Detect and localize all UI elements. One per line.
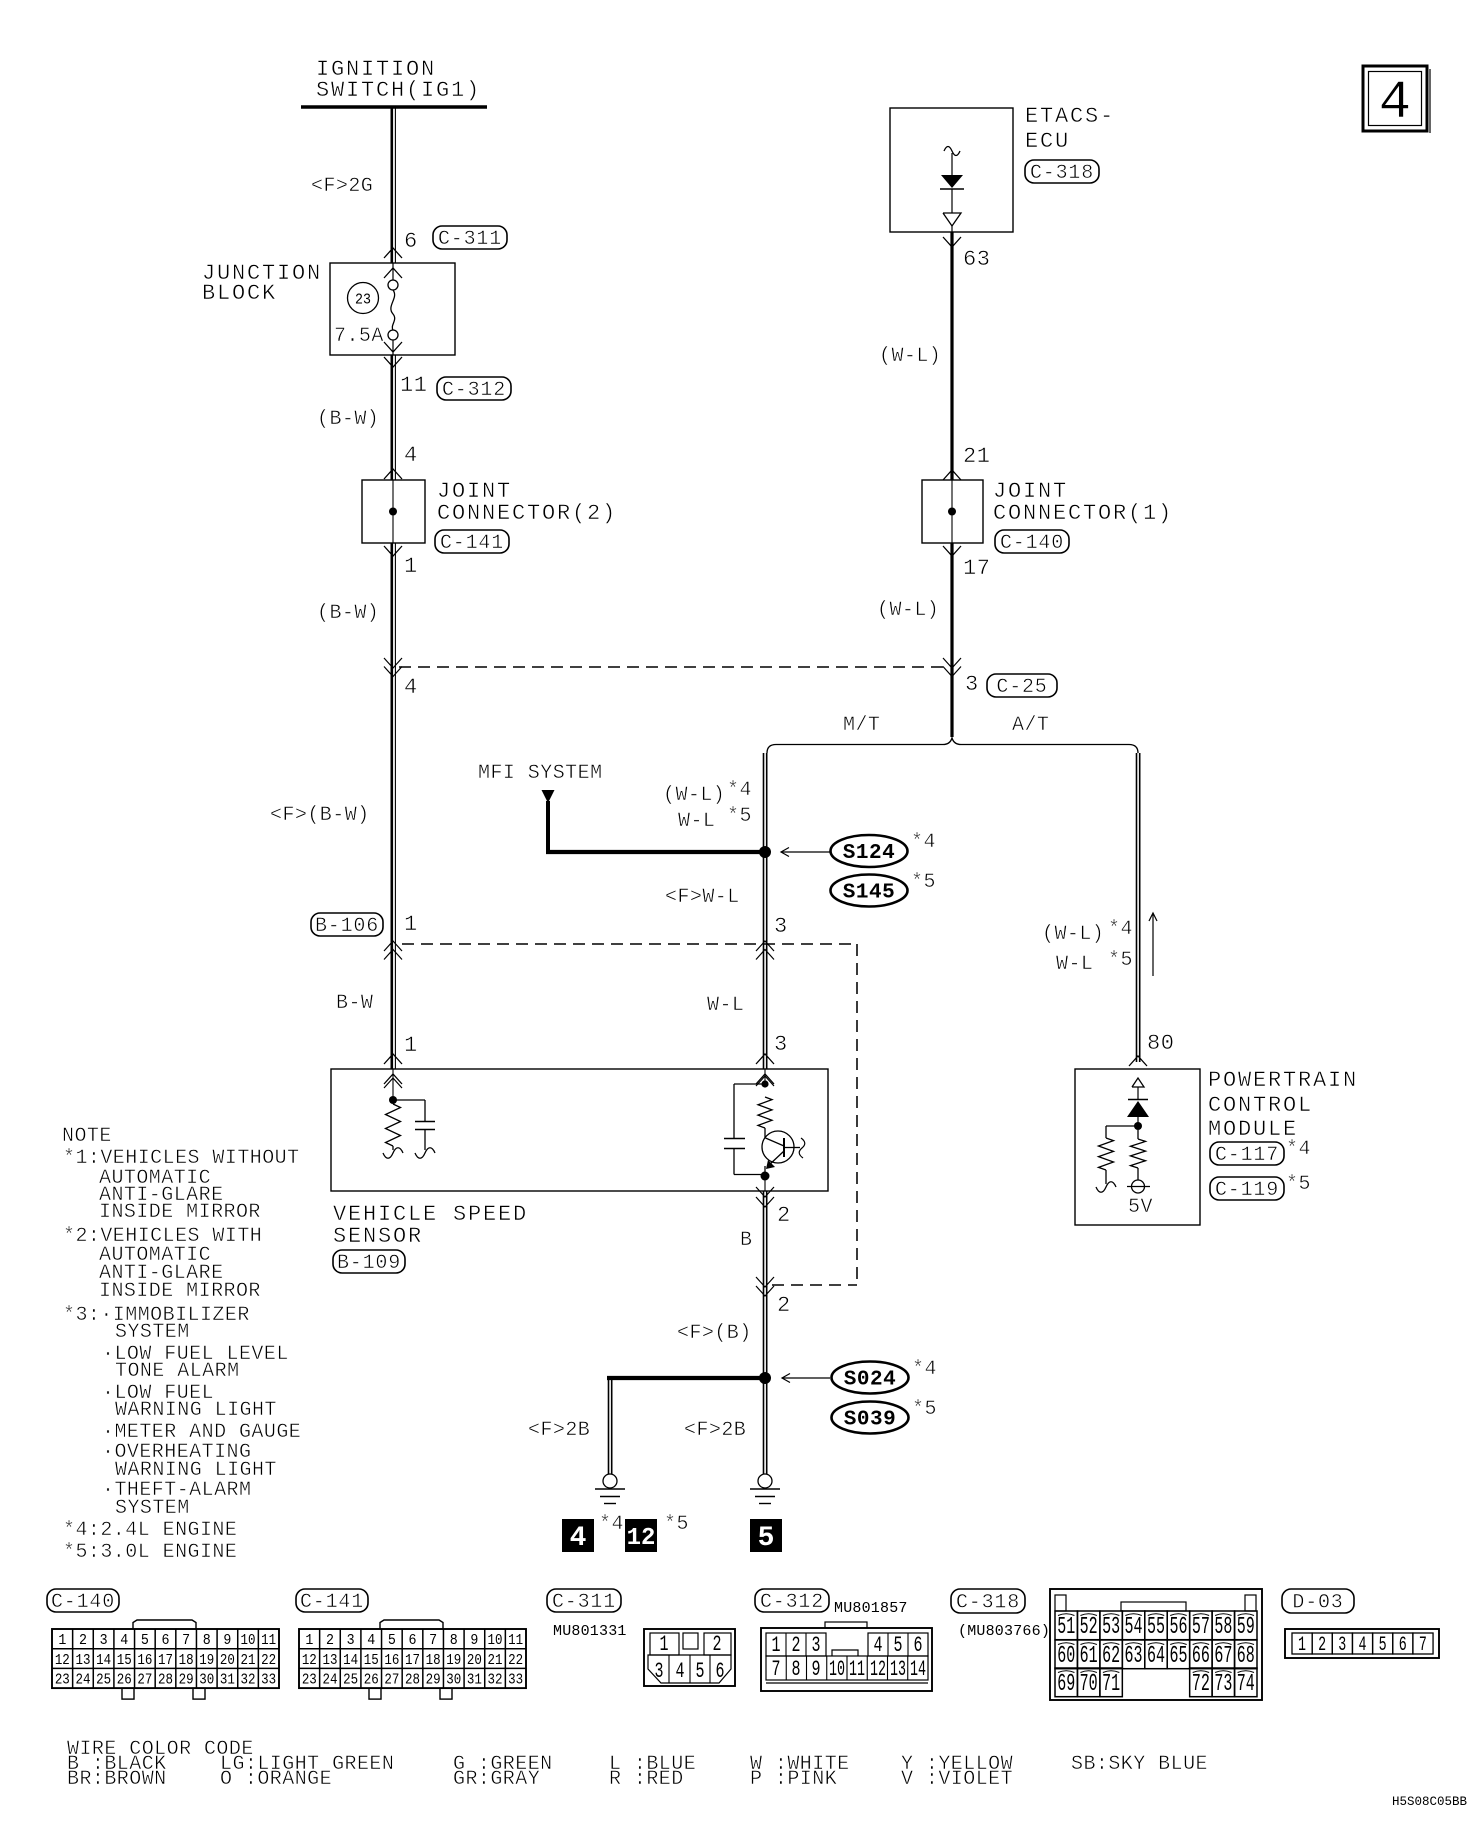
svg-text:(W-L): (W-L) xyxy=(877,599,939,622)
svg-text:3: 3 xyxy=(347,1632,355,1649)
svg-text:B-W: B-W xyxy=(336,992,373,1015)
svg-text:1: 1 xyxy=(660,1632,669,1657)
svg-text:6: 6 xyxy=(409,1632,417,1649)
svg-text:27: 27 xyxy=(384,1672,399,1689)
svg-text:4: 4 xyxy=(367,1632,375,1649)
svg-text:P :PINK: P :PINK xyxy=(750,1768,837,1791)
svg-text:12: 12 xyxy=(302,1652,317,1669)
svg-text:2: 2 xyxy=(326,1632,334,1649)
svg-text:9: 9 xyxy=(223,1632,231,1649)
svg-text:3: 3 xyxy=(100,1632,108,1649)
svg-text:67: 67 xyxy=(1214,1643,1232,1670)
svg-text:MODULE: MODULE xyxy=(1208,1117,1298,1142)
svg-text:56: 56 xyxy=(1169,1614,1187,1641)
svg-text:19: 19 xyxy=(446,1652,461,1669)
svg-text:6: 6 xyxy=(914,1633,923,1658)
svg-text:5: 5 xyxy=(758,1523,775,1554)
svg-text:32: 32 xyxy=(241,1672,256,1689)
svg-text:*4:2.4L ENGINE: *4:2.4L ENGINE xyxy=(63,1519,237,1542)
svg-text:INSIDE MIRROR: INSIDE MIRROR xyxy=(99,1201,261,1224)
svg-text:2: 2 xyxy=(713,1632,722,1657)
svg-text:*4: *4 xyxy=(599,1513,624,1536)
svg-text:21: 21 xyxy=(963,444,991,469)
svg-text:NOTE: NOTE xyxy=(62,1125,112,1148)
svg-text:1: 1 xyxy=(1298,1634,1306,1657)
svg-text:2: 2 xyxy=(1318,1634,1326,1657)
svg-text:18: 18 xyxy=(179,1652,194,1669)
svg-text:11: 11 xyxy=(261,1632,276,1649)
svg-text:64: 64 xyxy=(1147,1643,1165,1670)
svg-text:4: 4 xyxy=(404,675,418,700)
svg-text:1: 1 xyxy=(404,554,418,579)
svg-text:12: 12 xyxy=(870,1657,886,1682)
svg-text:6: 6 xyxy=(716,1659,725,1684)
svg-text:57: 57 xyxy=(1192,1614,1210,1641)
svg-text:BR:BROWN: BR:BROWN xyxy=(67,1768,167,1791)
svg-text:31: 31 xyxy=(220,1672,235,1689)
svg-text:C-318: C-318 xyxy=(956,1592,1020,1615)
svg-text:MU801331: MU801331 xyxy=(553,1623,627,1640)
svg-text:58: 58 xyxy=(1214,1614,1232,1641)
svg-text:3: 3 xyxy=(812,1633,821,1658)
svg-text:C-140: C-140 xyxy=(51,1591,115,1614)
svg-text:MU801857: MU801857 xyxy=(834,1600,908,1617)
svg-text:10: 10 xyxy=(488,1632,503,1649)
svg-text:*5:3.0L ENGINE: *5:3.0L ENGINE xyxy=(63,1541,237,1564)
svg-text:5: 5 xyxy=(696,1659,705,1684)
svg-text:(MU803766): (MU803766) xyxy=(958,1623,1050,1640)
svg-text:(W-L): (W-L) xyxy=(663,784,725,807)
svg-text:SENSOR: SENSOR xyxy=(333,1224,423,1249)
svg-text:C-318: C-318 xyxy=(1030,162,1094,185)
svg-text:33: 33 xyxy=(508,1672,523,1689)
svg-text:16: 16 xyxy=(137,1652,152,1669)
svg-text:25: 25 xyxy=(96,1672,111,1689)
svg-text:4: 4 xyxy=(874,1633,883,1658)
svg-text:4: 4 xyxy=(676,1659,685,1684)
svg-text:C-311: C-311 xyxy=(552,1591,616,1614)
svg-text:29: 29 xyxy=(426,1672,441,1689)
svg-text:C-141: C-141 xyxy=(440,532,504,555)
svg-text:(B-W): (B-W) xyxy=(317,602,379,625)
svg-text:21: 21 xyxy=(488,1652,503,1669)
svg-text:18: 18 xyxy=(426,1652,441,1669)
svg-text:10: 10 xyxy=(241,1632,256,1649)
svg-text:16: 16 xyxy=(384,1652,399,1669)
svg-text:C-311: C-311 xyxy=(438,228,502,251)
svg-text:*4: *4 xyxy=(912,1358,937,1381)
svg-text:22: 22 xyxy=(508,1652,523,1669)
svg-text:71: 71 xyxy=(1102,1671,1120,1698)
svg-text:O :ORANGE: O :ORANGE xyxy=(220,1768,332,1791)
svg-text:23: 23 xyxy=(302,1672,317,1689)
svg-text:52: 52 xyxy=(1080,1614,1098,1641)
svg-text:9: 9 xyxy=(470,1632,478,1649)
svg-text:66: 66 xyxy=(1192,1643,1210,1670)
svg-text:MFI SYSTEM: MFI SYSTEM xyxy=(478,762,603,785)
svg-text:15: 15 xyxy=(117,1652,132,1669)
svg-text:2: 2 xyxy=(777,1293,791,1318)
svg-text:3: 3 xyxy=(965,672,979,697)
svg-text:<F>W-L: <F>W-L xyxy=(665,886,740,909)
svg-text:14: 14 xyxy=(96,1652,111,1669)
svg-text:30: 30 xyxy=(446,1672,461,1689)
svg-text:CONNECTOR(2): CONNECTOR(2) xyxy=(437,501,617,526)
svg-text:61: 61 xyxy=(1080,1643,1098,1670)
svg-text:(B-W): (B-W) xyxy=(317,408,379,431)
svg-text:*5: *5 xyxy=(1108,949,1133,972)
svg-text:19: 19 xyxy=(199,1652,214,1669)
svg-text:27: 27 xyxy=(137,1672,152,1689)
svg-text:28: 28 xyxy=(405,1672,420,1689)
svg-text:6: 6 xyxy=(162,1632,170,1649)
svg-text:23: 23 xyxy=(355,292,371,309)
svg-text:H5S08C05BB: H5S08C05BB xyxy=(1392,1795,1468,1809)
svg-text:*5: *5 xyxy=(1286,1173,1311,1196)
svg-text:54: 54 xyxy=(1125,1614,1143,1641)
svg-text:B: B xyxy=(740,1229,752,1252)
svg-text:V :VIOLET: V :VIOLET xyxy=(901,1768,1013,1791)
svg-text:9: 9 xyxy=(812,1657,821,1682)
svg-text:6: 6 xyxy=(404,229,418,254)
svg-text:C-25: C-25 xyxy=(996,676,1047,699)
svg-text:TONE ALARM: TONE ALARM xyxy=(115,1360,240,1383)
svg-text:A/T: A/T xyxy=(1012,714,1049,737)
svg-text:POWERTRAIN: POWERTRAIN xyxy=(1208,1068,1358,1093)
svg-text:7: 7 xyxy=(1419,1634,1427,1657)
svg-text:4: 4 xyxy=(404,443,418,468)
svg-text:70: 70 xyxy=(1080,1671,1098,1698)
svg-text:B-106: B-106 xyxy=(315,915,379,938)
svg-text:21: 21 xyxy=(241,1652,256,1669)
svg-text:59: 59 xyxy=(1237,1614,1255,1641)
svg-text:53: 53 xyxy=(1102,1614,1120,1641)
svg-text:8: 8 xyxy=(450,1632,458,1649)
svg-text:24: 24 xyxy=(322,1672,337,1689)
svg-text:72: 72 xyxy=(1192,1671,1210,1698)
svg-text:31: 31 xyxy=(467,1672,482,1689)
svg-text:1: 1 xyxy=(772,1633,781,1658)
svg-text:5: 5 xyxy=(1379,1634,1387,1657)
svg-text:SB:SKY BLUE: SB:SKY BLUE xyxy=(1071,1753,1208,1776)
svg-text:4: 4 xyxy=(1358,1634,1366,1657)
svg-text:C-312: C-312 xyxy=(760,1591,824,1614)
svg-text:CONNECTOR(1): CONNECTOR(1) xyxy=(993,501,1173,526)
svg-text:7: 7 xyxy=(182,1632,190,1649)
svg-text:29: 29 xyxy=(179,1672,194,1689)
svg-text:3: 3 xyxy=(774,914,788,939)
svg-text:74: 74 xyxy=(1237,1671,1255,1698)
svg-text:26: 26 xyxy=(117,1672,132,1689)
svg-text:20: 20 xyxy=(467,1652,482,1669)
svg-text:62: 62 xyxy=(1102,1643,1120,1670)
svg-text:13: 13 xyxy=(75,1652,90,1669)
svg-text:5: 5 xyxy=(388,1632,396,1649)
svg-text:*4: *4 xyxy=(1286,1138,1311,1161)
svg-text:2: 2 xyxy=(777,1203,791,1228)
svg-text:17: 17 xyxy=(158,1652,173,1669)
svg-text:32: 32 xyxy=(488,1672,503,1689)
svg-text:WARNING LIGHT: WARNING LIGHT xyxy=(115,1399,277,1422)
svg-text:28: 28 xyxy=(158,1672,173,1689)
svg-text:S024: S024 xyxy=(844,1369,896,1392)
svg-text:B-109: B-109 xyxy=(337,1252,401,1275)
svg-text:13: 13 xyxy=(322,1652,337,1669)
svg-text:22: 22 xyxy=(261,1652,276,1669)
svg-text:*5: *5 xyxy=(912,1398,937,1421)
svg-text:25: 25 xyxy=(343,1672,358,1689)
svg-text:R :RED: R :RED xyxy=(609,1768,684,1791)
svg-text:11: 11 xyxy=(849,1657,865,1682)
svg-text:12: 12 xyxy=(627,1525,656,1552)
svg-text:BLOCK: BLOCK xyxy=(202,281,277,306)
svg-text:8: 8 xyxy=(203,1632,211,1649)
svg-text:1: 1 xyxy=(305,1632,313,1649)
svg-text:SYSTEM: SYSTEM xyxy=(115,1497,190,1520)
svg-text:3: 3 xyxy=(655,1659,664,1684)
svg-text:C-140: C-140 xyxy=(1000,532,1064,555)
svg-text:1: 1 xyxy=(58,1632,66,1649)
svg-text:1: 1 xyxy=(404,1033,418,1058)
svg-text:7: 7 xyxy=(772,1657,781,1682)
svg-text:17: 17 xyxy=(405,1652,420,1669)
svg-text:<F>2B: <F>2B xyxy=(528,1419,590,1442)
svg-text:55: 55 xyxy=(1147,1614,1165,1641)
svg-text:*4: *4 xyxy=(727,779,752,802)
svg-text:24: 24 xyxy=(75,1672,90,1689)
svg-text:(W-L): (W-L) xyxy=(879,345,941,368)
svg-text:4: 4 xyxy=(570,1523,587,1554)
svg-text:3: 3 xyxy=(774,1032,788,1057)
svg-text:*5: *5 xyxy=(911,871,936,894)
svg-text:M/T: M/T xyxy=(843,714,880,737)
svg-text:(W-L): (W-L) xyxy=(1042,923,1104,946)
svg-text:W-L: W-L xyxy=(678,810,715,833)
svg-text:10: 10 xyxy=(829,1657,845,1682)
svg-text:C-117: C-117 xyxy=(1215,1144,1279,1167)
svg-text:33: 33 xyxy=(261,1672,276,1689)
svg-text:4: 4 xyxy=(1379,73,1411,134)
svg-text:2: 2 xyxy=(79,1632,87,1649)
svg-text:<F>2B: <F>2B xyxy=(684,1419,746,1442)
svg-text:W-L: W-L xyxy=(1056,953,1093,976)
svg-text:<F>2G: <F>2G xyxy=(311,175,373,198)
svg-text:S124: S124 xyxy=(843,842,895,865)
svg-text:C-312: C-312 xyxy=(442,379,506,402)
svg-text:C-141: C-141 xyxy=(300,1591,364,1614)
svg-text:*5: *5 xyxy=(664,1513,689,1536)
svg-text:4: 4 xyxy=(120,1632,128,1649)
svg-text:65: 65 xyxy=(1169,1643,1187,1670)
svg-text:5V: 5V xyxy=(1128,1196,1153,1219)
svg-text:63: 63 xyxy=(963,247,991,272)
svg-text:69: 69 xyxy=(1057,1671,1075,1698)
svg-text:51: 51 xyxy=(1057,1614,1075,1641)
svg-text:7.5A: 7.5A xyxy=(334,325,384,348)
svg-text:5: 5 xyxy=(141,1632,149,1649)
svg-text:<F>(B): <F>(B) xyxy=(677,1322,752,1345)
svg-text:13: 13 xyxy=(890,1657,906,1682)
svg-text:*5: *5 xyxy=(727,805,752,828)
svg-text:ECU: ECU xyxy=(1025,129,1070,154)
svg-text:63: 63 xyxy=(1125,1643,1143,1670)
svg-text:SWITCH(IG1): SWITCH(IG1) xyxy=(316,78,481,103)
svg-text:17: 17 xyxy=(963,556,991,581)
svg-text:68: 68 xyxy=(1237,1643,1255,1670)
svg-text:SYSTEM: SYSTEM xyxy=(115,1321,190,1344)
svg-text:2: 2 xyxy=(792,1633,801,1658)
svg-text:5: 5 xyxy=(894,1633,903,1658)
svg-text:23: 23 xyxy=(55,1672,70,1689)
svg-text:20: 20 xyxy=(220,1652,235,1669)
svg-text:12: 12 xyxy=(55,1652,70,1669)
svg-text:3: 3 xyxy=(1338,1634,1346,1657)
svg-text:15: 15 xyxy=(364,1652,379,1669)
svg-text:11: 11 xyxy=(400,373,428,398)
svg-text:C-119: C-119 xyxy=(1215,1179,1279,1202)
svg-text:7: 7 xyxy=(429,1632,437,1649)
svg-text:11: 11 xyxy=(508,1632,523,1649)
svg-text:14: 14 xyxy=(910,1657,926,1682)
svg-text:<F>(B-W): <F>(B-W) xyxy=(270,804,370,827)
svg-text:ETACS-: ETACS- xyxy=(1025,104,1115,129)
svg-text:W-L: W-L xyxy=(707,994,744,1017)
svg-text:60: 60 xyxy=(1057,1643,1075,1670)
svg-text:1: 1 xyxy=(404,912,418,937)
svg-text:D-03: D-03 xyxy=(1292,1592,1343,1615)
svg-text:*4: *4 xyxy=(911,831,936,854)
svg-text:INSIDE MIRROR: INSIDE MIRROR xyxy=(99,1280,261,1303)
svg-text:S039: S039 xyxy=(844,1409,896,1432)
svg-text:S145: S145 xyxy=(843,882,895,905)
svg-text:GR:GRAY: GR:GRAY xyxy=(453,1768,540,1791)
svg-text:26: 26 xyxy=(364,1672,379,1689)
svg-text:14: 14 xyxy=(343,1652,358,1669)
svg-text:80: 80 xyxy=(1147,1031,1175,1056)
svg-text:30: 30 xyxy=(199,1672,214,1689)
svg-text:*4: *4 xyxy=(1108,918,1133,941)
svg-text:8: 8 xyxy=(792,1657,801,1682)
svg-text:CONTROL: CONTROL xyxy=(1208,1093,1313,1118)
svg-text:73: 73 xyxy=(1214,1671,1232,1698)
svg-text:6: 6 xyxy=(1399,1634,1407,1657)
